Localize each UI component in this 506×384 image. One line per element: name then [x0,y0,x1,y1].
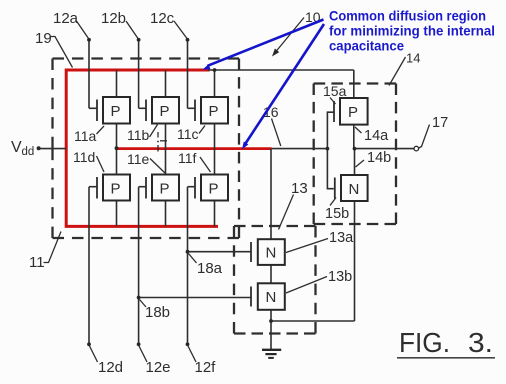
junction dot drain line [115,146,119,150]
wire node line to gate of 14 [272,148,328,150]
transistor P 11e [146,175,179,201]
label 15b [325,198,349,223]
junction dot top rail [213,68,217,72]
svg-text:11e: 11e [127,151,150,167]
label 13a [286,230,354,253]
svg-text:14: 14 [406,51,420,66]
label 18a [189,254,223,278]
svg-text:12a: 12a [53,10,79,27]
svg-text:12e: 12e [146,359,171,376]
junction dot 12d bottom [87,342,91,346]
label 11c [177,126,205,143]
transistor P 11a [97,97,130,124]
wire ground stem [270,321,272,349]
wire ground bus [271,320,355,322]
svg-text:13b: 13b [328,269,352,285]
label 12b [101,10,138,39]
wire N15b drain lead [354,149,356,175]
label 19 [35,30,73,68]
wire gate lead 11b [139,107,146,109]
wire source lead 11d [116,201,118,227]
label 14a [355,127,389,144]
wire first stage output down [270,149,272,240]
svg-text:11: 11 [29,254,45,271]
transistor N 13b [251,283,285,310]
wire Vdd lead [39,148,67,150]
wire between N13a N13b [270,265,272,283]
svg-text:Common diffusion region: Common diffusion region [329,9,486,24]
svg-text:15b: 15b [325,206,349,222]
blue annotation text [329,9,495,54]
wire source lead 11a [116,70,118,97]
svg-text:13: 13 [291,180,308,197]
junction dot output 14 [353,147,357,151]
wire gate lead 11c [188,107,196,109]
svg-text:P: P [111,103,121,120]
junction dot 12f bottom [186,342,190,346]
wire drain lead 11d [116,149,118,175]
transistor P 11c [195,97,228,124]
wire input 12f vertical [187,187,189,345]
junction dot ground bus [269,319,273,323]
svg-text:18a: 18a [197,260,223,277]
junction dot 12a top [87,38,91,42]
wire source lead 11f [214,201,216,227]
svg-text:P: P [160,103,170,120]
label 12d [90,346,124,376]
wire gate lead 11a [89,107,97,109]
wire top rail black [208,69,354,71]
svg-text:P: P [160,181,170,198]
blue arrow to top rail [203,20,324,70]
wire 18a tap [188,251,252,253]
svg-text:12d: 12d [98,359,123,376]
label 12f [188,346,216,376]
label 12e [139,346,171,376]
svg-text:13a: 13a [329,230,354,246]
svg-text:FIG.: FIG. [399,327,450,358]
figure title FIG. 3. [397,327,495,358]
junction dot 18b [137,296,141,300]
svg-text:dd: dd [22,146,35,158]
transistor P 15a [334,98,368,125]
wire input 12e vertical [138,187,140,345]
svg-text:N: N [349,181,360,198]
transistor P 11b [146,97,179,124]
wire P15a source lead [353,70,355,98]
common drain line highlighted red [116,147,272,150]
wire source lead 11c [214,70,216,97]
svg-text:P: P [348,104,358,121]
svg-text:capacitance: capacitance [329,39,404,54]
svg-text:11a: 11a [74,128,97,144]
label 14 [389,51,420,86]
label 13 [279,180,308,230]
junction dot 12e bottom [137,342,141,346]
wire gate lead 11f [188,186,196,188]
transistor N 15b [335,175,368,201]
terminal 17 open circle [414,146,419,151]
wire output to 17 [355,148,415,150]
wire N15b source down [354,201,356,321]
label 10 with arrow [272,9,321,57]
label Vdd [11,139,34,158]
label 18b [140,300,171,322]
wire input 12a vertical [88,40,90,109]
junction dot gate of 14 [326,147,330,151]
label 12a [53,10,89,39]
dashed box 13 [234,226,316,334]
wire input 12b vertical [138,40,140,109]
label 15a [323,83,347,104]
centerline mark near 11b [157,132,167,152]
svg-text:N: N [266,289,277,306]
blue arrow to drain line [242,24,324,149]
svg-text:17: 17 [432,115,448,131]
label 11e [127,151,165,173]
svg-text:12b: 12b [101,10,126,27]
svg-text:11c: 11c [177,126,199,142]
label 13b [286,269,352,293]
wire drain lead 11c [214,124,216,149]
svg-text:12c: 12c [150,10,175,27]
svg-text:19: 19 [35,30,52,47]
wire drain lead 11b [165,124,167,149]
label 16 [263,104,281,146]
transistor P 11f [195,175,228,201]
svg-text:for minimizing the internal: for minimizing the internal [329,24,495,39]
svg-text:14b: 14b [367,150,391,166]
label 11 [29,232,61,272]
svg-text:11f: 11f [178,150,197,166]
label 12c [150,10,187,39]
svg-text:18b: 18b [145,304,170,321]
label 11b [127,125,158,144]
transistor P 11d [97,175,130,201]
svg-text:15a: 15a [323,83,347,99]
wire input 12c vertical [187,40,189,109]
svg-text:14a: 14a [364,128,389,144]
junction dot 12b top [137,38,141,42]
Vdd rail highlighted red [66,70,218,226]
wire drain lead 11a [116,124,118,149]
transistor N 13a [251,239,285,265]
label 11a [74,126,104,144]
wire drain lead 11e [165,149,167,175]
svg-text:P: P [209,103,219,120]
junction dot 12c top [186,38,190,42]
wire gate lead 11d [89,186,97,188]
svg-text:N: N [266,245,277,262]
dashed box 14 [314,84,396,225]
svg-text:P: P [111,181,121,198]
label 11d [73,149,104,172]
junction dot Vdd [37,146,41,150]
svg-text:12f: 12f [195,359,217,376]
outer dashed box 11 [53,59,240,239]
wire gate lead 11e [139,186,146,188]
wire gate bus of inverter 14 [327,112,333,189]
junction dot 18a [186,250,190,254]
svg-text:P: P [209,181,219,198]
label 17 [418,115,448,148]
wire drain lead 11f [214,149,216,175]
wire 18b tap [139,297,251,299]
label 11f [178,150,211,172]
wire input 12d vertical [88,187,90,345]
wire source lead 11e [165,201,167,227]
svg-text:11d: 11d [73,149,95,165]
wire P15a drain lead [353,125,355,149]
label 14b [356,150,392,167]
svg-text:11b: 11b [127,127,150,143]
wire N13b source down [270,310,272,321]
svg-text:V: V [11,139,22,156]
wire source lead 11b [165,70,167,97]
ground [262,350,281,358]
svg-text:3.: 3. [468,327,493,358]
